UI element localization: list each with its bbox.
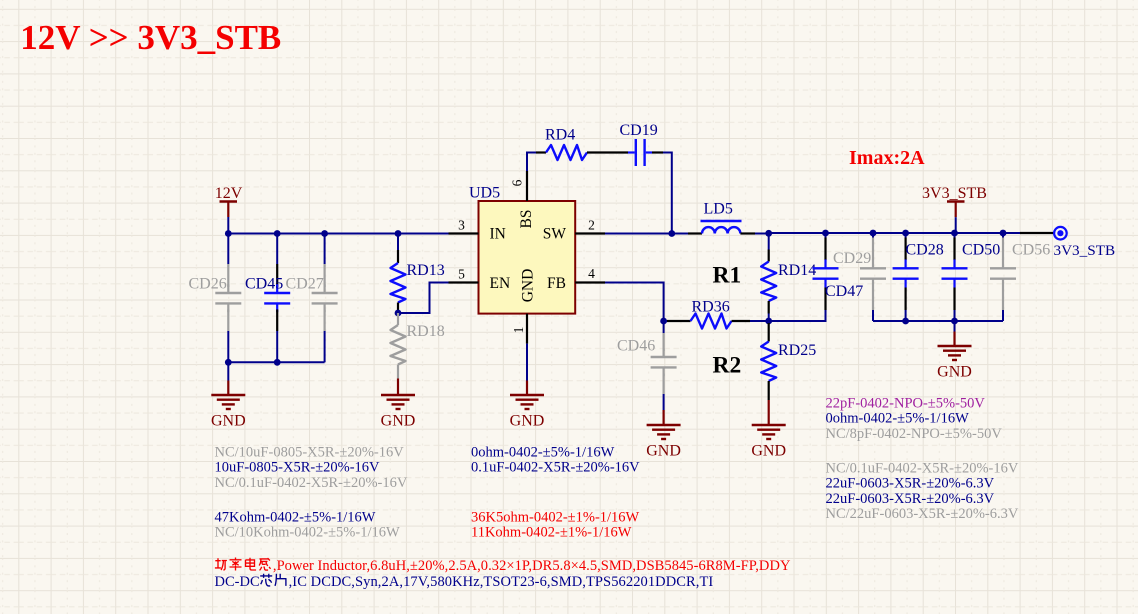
- svg-text:IN: IN: [490, 226, 506, 243]
- resistor RD13 body: [391, 263, 406, 303]
- svg-text:4: 4: [588, 266, 595, 281]
- svg-text:22pF-0402-NPO-±5%-50V: 22pF-0402-NPO-±5%-50V: [826, 396, 986, 412]
- svg-text:CD45: CD45: [245, 276, 283, 293]
- junction: [225, 359, 232, 366]
- resistor RD14: [768, 233, 770, 250]
- wire SW: [605, 233, 688, 235]
- resistor RD36 body: [691, 314, 732, 329]
- svg-text:DC-DC: DC-DC: [215, 574, 260, 590]
- junction: [765, 230, 772, 237]
- wire BS riser: [527, 153, 536, 172]
- resistor RD36: [664, 320, 667, 322]
- pin 1 GND: [526, 314, 528, 344]
- svg-text:NC/8pF-0402-NPO-±5%-50V: NC/8pF-0402-NPO-±5%-50V: [826, 426, 1003, 442]
- wire CD26 bottom: [227, 331, 229, 362]
- wire gnd stem: [954, 321, 956, 332]
- port 3V3_STB: [1054, 227, 1067, 240]
- svg-text:CD46: CD46: [617, 338, 655, 355]
- capacitor CD50: [954, 233, 956, 238]
- svg-text:,IC DCDC,Syn,2A,17V,580KHz,TSO: ,IC DCDC,Syn,2A,17V,580KHz,TSOT23-6,SMD,…: [289, 574, 714, 590]
- capacitor CD47 plates: [813, 267, 839, 269]
- svg-text:11Kohm-0402-±1%-1/16W: 11Kohm-0402-±1%-1/16W: [471, 525, 632, 541]
- svg-text:CD27: CD27: [286, 276, 324, 293]
- svg-text:GND: GND: [937, 364, 972, 381]
- svg-text:3V3_STB: 3V3_STB: [1054, 242, 1116, 259]
- wire CD47 bottom: [825, 310, 827, 322]
- ground GND5: [752, 425, 786, 439]
- capacitor CD19: [628, 151, 635, 153]
- inductor LD5: [688, 232, 702, 234]
- svg-text:R2: R2: [713, 353, 742, 379]
- resistor RD4: [536, 151, 546, 153]
- wire input rail: [228, 233, 448, 235]
- svg-text:NC/10Kohm-0402-±5%-1/16W: NC/10Kohm-0402-±5%-1/16W: [215, 525, 400, 541]
- svg-text:12V >> 3V3_STB: 12V >> 3V3_STB: [20, 18, 281, 57]
- svg-text:5: 5: [458, 267, 465, 282]
- capacitor CD46 plates: [651, 356, 677, 358]
- capacitor CD27 plates: [312, 292, 338, 294]
- wire to port: [1020, 232, 1054, 234]
- capacitor CD50 plates: [942, 267, 968, 269]
- svg-text:NC/0.1uF-0402-X5R-±20%-16V: NC/0.1uF-0402-X5R-±20%-16V: [826, 461, 1019, 477]
- svg-text:RD36: RD36: [692, 299, 730, 316]
- svg-text:NC/10uF-0805-X5R-±20%-16V: NC/10uF-0805-X5R-±20%-16V: [215, 445, 405, 461]
- svg-text:UD5: UD5: [469, 185, 500, 202]
- wire output rail: [769, 232, 1020, 234]
- pin 3 IN: [449, 232, 479, 234]
- svg-text:NC/0.1uF-0402-X5R-±20%-16V: NC/0.1uF-0402-X5R-±20%-16V: [215, 475, 408, 491]
- svg-text:10uF-0805-X5R-±20%-16V: 10uF-0805-X5R-±20%-16V: [215, 460, 381, 476]
- junction: [225, 230, 232, 237]
- svg-text:RD14: RD14: [778, 262, 816, 279]
- note line 1 (red): [215, 558, 227, 570]
- wire CD26 top: [227, 234, 229, 265]
- svg-text:CD19: CD19: [620, 122, 658, 139]
- capacitor CD28: [905, 233, 907, 238]
- wire RD13 top: [397, 234, 399, 251]
- svg-text:GND: GND: [646, 443, 681, 460]
- junction FB node: [660, 318, 667, 325]
- svg-text:CD29: CD29: [833, 250, 871, 267]
- svg-text:6: 6: [510, 179, 525, 186]
- wire LD5 out: [755, 233, 769, 235]
- svg-text:22uF-0603-X5R-±20%-6.3V: 22uF-0603-X5R-±20%-6.3V: [826, 491, 995, 507]
- svg-text:1: 1: [511, 327, 526, 334]
- svg-text:GND: GND: [751, 443, 786, 460]
- wire RD25 gnd stem: [768, 400, 770, 425]
- ground GND6: [938, 346, 972, 360]
- svg-text:RD4: RD4: [545, 127, 575, 144]
- svg-text:2: 2: [588, 218, 595, 233]
- resistor RD25: [768, 323, 770, 342]
- svg-text:SW: SW: [543, 226, 567, 243]
- ground GND1: [211, 395, 245, 409]
- svg-text:NC/22uF-0603-X5R-±20%-6.3V: NC/22uF-0603-X5R-±20%-6.3V: [826, 506, 1019, 522]
- ground GND2: [381, 395, 415, 409]
- svg-text:3V3_STB: 3V3_STB: [922, 185, 987, 202]
- capacitor CD28 plates: [893, 267, 919, 269]
- resistor RD4 body: [546, 145, 587, 160]
- junction SW node: [668, 230, 675, 237]
- svg-text:CD28: CD28: [906, 242, 944, 259]
- svg-text:22uF-0603-X5R-±20%-6.3V: 22uF-0603-X5R-±20%-6.3V: [826, 476, 995, 492]
- svg-text:RD25: RD25: [778, 342, 816, 359]
- svg-text:0ohm-0402-±5%-1/16W: 0ohm-0402-±5%-1/16W: [826, 411, 970, 427]
- svg-text:47Kohm-0402-±5%-1/16W: 47Kohm-0402-±5%-1/16W: [215, 509, 376, 525]
- pin 5 EN: [449, 281, 479, 283]
- wire CD45 bottom: [276, 331, 278, 362]
- wire 3V3 stem: [955, 217, 957, 233]
- wire BS to SW: [663, 153, 672, 234]
- svg-text:R1: R1: [713, 263, 742, 289]
- capacitor CD45 plates: [264, 292, 290, 294]
- power port 3V3_STB: [947, 200, 965, 203]
- wire CD45 top: [276, 234, 278, 265]
- svg-text:GND: GND: [381, 413, 416, 430]
- svg-text:36K5ohm-0402-±1%-1/16W: 36K5ohm-0402-±1%-1/16W: [471, 509, 640, 525]
- resistor RD13: [397, 250, 399, 263]
- junction: [902, 318, 909, 325]
- svg-text:RD18: RD18: [407, 323, 445, 340]
- pin 2 SW: [575, 232, 605, 234]
- svg-text:CD47: CD47: [825, 283, 863, 300]
- svg-text:12V: 12V: [215, 185, 243, 202]
- wire cap bottom rail: [228, 361, 324, 363]
- wire 12V stem: [227, 217, 229, 235]
- resistor RD18 body: [391, 325, 406, 365]
- capacitor CD45: [276, 264, 278, 287]
- svg-text:,Power Inductor,6.8uH,±20%,2.5: ,Power Inductor,6.8uH,±20%,2.5A,0.32×1P,…: [273, 558, 791, 574]
- capacitor CD47: [825, 233, 827, 238]
- svg-text:GND: GND: [211, 413, 246, 430]
- pin 6 BS: [526, 171, 528, 201]
- svg-text:LD5: LD5: [704, 201, 733, 218]
- svg-text:Imax:2A: Imax:2A: [849, 147, 925, 169]
- resistor RD25 body: [761, 342, 776, 382]
- svg-text:0ohm-0402-±5%-1/16W: 0ohm-0402-±5%-1/16W: [471, 445, 615, 461]
- resistor RD14 body: [761, 262, 776, 302]
- svg-text:BS: BS: [518, 210, 535, 229]
- wire EN: [398, 283, 449, 314]
- capacitor CD56: [1002, 233, 1004, 238]
- wire RD18 gnd stem: [397, 379, 399, 396]
- junction: [765, 318, 772, 325]
- wire gnd stem: [227, 362, 229, 380]
- capacitor CD29: [872, 233, 874, 238]
- svg-text:3: 3: [458, 218, 465, 233]
- svg-text:CD26: CD26: [189, 276, 227, 293]
- node EN junction: [395, 310, 402, 317]
- IC UD5 TPS562201: [479, 201, 576, 314]
- wire gnd rail: [873, 320, 1003, 322]
- svg-text:CD56: CD56: [1012, 242, 1050, 259]
- capacitor CD27: [324, 264, 326, 287]
- ground GND4: [647, 425, 681, 439]
- wire FB: [605, 283, 664, 322]
- svg-text:FB: FB: [547, 275, 566, 292]
- wire FB rail: [750, 320, 826, 322]
- wire chip gnd: [526, 344, 528, 381]
- wire CD27 top: [324, 234, 326, 265]
- svg-text:0.1uF-0402-X5R-±20%-16V: 0.1uF-0402-X5R-±20%-16V: [471, 460, 640, 476]
- ground GND3: [510, 395, 544, 409]
- svg-text:EN: EN: [490, 275, 511, 292]
- power port 12V: [220, 200, 238, 203]
- capacitor CD46: [663, 321, 665, 333]
- capacitor CD26 plates: [215, 292, 241, 294]
- capacitor CD26: [227, 264, 229, 287]
- pin 4 FB: [575, 281, 605, 283]
- resistor RD18: [397, 313, 399, 325]
- capacitor CD56 plates: [990, 267, 1016, 269]
- capacitor CD29 plates: [860, 267, 886, 269]
- svg-text:GND: GND: [510, 413, 545, 430]
- wire CD27 bottom: [324, 331, 326, 362]
- svg-text:CD50: CD50: [962, 242, 1000, 259]
- wire CD46 gnd: [663, 394, 665, 410]
- svg-text:RD13: RD13: [407, 262, 445, 279]
- svg-text:GND: GND: [520, 269, 537, 303]
